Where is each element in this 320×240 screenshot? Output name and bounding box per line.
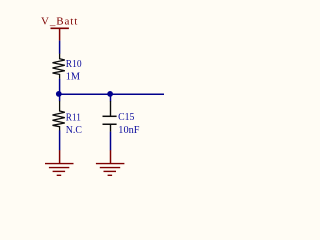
wire C15 to ground GND2 xyxy=(110,132,112,151)
wire power to R10 xyxy=(59,41,61,54)
ground GND1 bar 2 xyxy=(49,167,69,169)
ground GND1 bar 4 xyxy=(57,174,62,176)
svg-text:C15: C15 xyxy=(118,112,134,123)
svg-text:R10: R10 xyxy=(66,59,82,70)
ground GND2 bar 3 xyxy=(104,170,117,172)
capacitor C15 top plate xyxy=(103,115,117,117)
ground GND1 bar 1 xyxy=(45,163,74,165)
ground GND1 stem xyxy=(59,150,61,163)
svg-text:1M: 1M xyxy=(66,72,80,83)
capacitor C15 bottom plate xyxy=(103,123,117,125)
node B junction xyxy=(107,91,113,97)
svg-text:N.C: N.C xyxy=(66,125,82,136)
svg-text:V_Batt: V_Batt xyxy=(41,16,77,28)
ground GND2 bar 2 xyxy=(100,167,120,169)
wire R11 to ground GND1 xyxy=(59,130,61,150)
svg-text:R11: R11 xyxy=(66,113,81,124)
wire node A to right edge xyxy=(60,93,164,95)
wire node A to R11 xyxy=(59,94,61,101)
capacitor C15 top lead xyxy=(110,101,112,116)
wire node B to C15 xyxy=(110,94,112,101)
ground GND2 stem xyxy=(110,150,112,163)
ground GND2 bar 1 xyxy=(96,163,125,165)
power port V_Batt stem xyxy=(59,28,61,40)
capacitor C15 bottom lead xyxy=(110,124,112,132)
ground GND2 bar 4 xyxy=(108,174,113,176)
wire R10 to node A xyxy=(59,79,61,94)
power port V_Batt bar xyxy=(51,27,69,29)
resistor R10 xyxy=(53,54,65,79)
svg-text:10nF: 10nF xyxy=(118,125,139,136)
resistor R11 xyxy=(53,101,65,131)
node A junction xyxy=(56,91,62,97)
ground GND1 bar 3 xyxy=(53,170,66,172)
